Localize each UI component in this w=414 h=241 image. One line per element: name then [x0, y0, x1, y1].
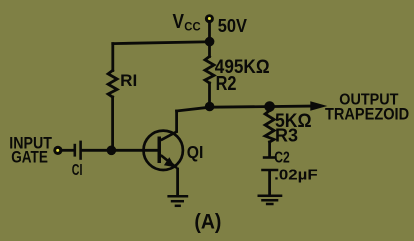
- wire collector vertical: [175, 111, 178, 132]
- resistor R3: [265, 111, 274, 143]
- svg-text:GATE: GATE: [11, 148, 48, 166]
- ground (C2): [258, 196, 283, 204]
- wire C2 to ground: [268, 171, 271, 194]
- terminal input: [53, 146, 62, 155]
- svg-text:CC: CC: [184, 19, 201, 33]
- svg-text:RI: RI: [120, 71, 137, 90]
- svg-text:CI: CI: [72, 162, 83, 179]
- resistor R2: [205, 57, 214, 84]
- resistor R1: [108, 71, 117, 98]
- node R2 bottom junction: [205, 102, 215, 112]
- wire R1 branch lower: [111, 97, 114, 150]
- svg-text:R2: R2: [216, 73, 237, 95]
- wire C1 to base: [82, 149, 159, 152]
- capacitor C1: [75, 141, 81, 160]
- node R3 top junction: [264, 101, 275, 112]
- wire input terminal to C1: [63, 149, 74, 152]
- node Vcc rail junction: [205, 37, 215, 47]
- wire Vcc terminal to node: [208, 23, 211, 57]
- ground (emitter): [167, 196, 188, 206]
- capacitor C2: [261, 158, 278, 171]
- wire R1 branch upper: [111, 44, 114, 71]
- svg-text:C2: C2: [274, 149, 290, 166]
- wire collector rail horizontal: [177, 106, 311, 111]
- wire R3 top: [268, 107, 271, 111]
- svg-text:.02µF: .02µF: [274, 167, 318, 184]
- node base junction: [107, 146, 117, 156]
- wire R2 to collector rail: [208, 83, 211, 107]
- output arrow: [310, 101, 327, 110]
- terminal Vcc: [205, 14, 214, 23]
- svg-text:(A): (A): [194, 211, 221, 234]
- svg-text:QI: QI: [187, 142, 204, 162]
- svg-text:50V: 50V: [218, 16, 247, 36]
- wire R3 to C2: [268, 142, 271, 156]
- svg-text:TRAPEZOID: TRAPEZOID: [325, 104, 409, 123]
- wire top horizontal (Vcc rail to R1): [113, 42, 210, 44]
- wire emitter to ground: [176, 169, 179, 195]
- svg-text:V: V: [173, 11, 185, 33]
- svg-text:R3: R3: [275, 125, 298, 146]
- transistor Q1: [144, 131, 183, 170]
